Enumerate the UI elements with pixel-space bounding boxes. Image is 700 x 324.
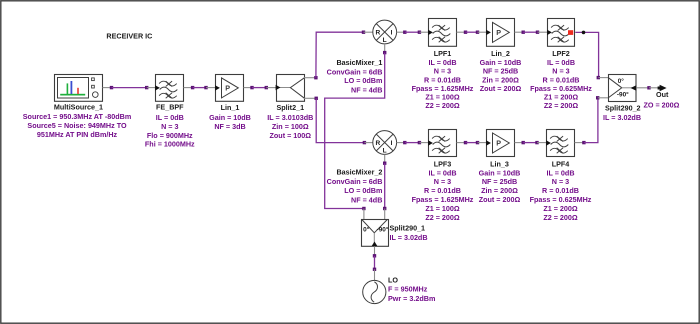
svg-text:0°: 0° <box>618 77 625 85</box>
svg-text:Zin = 100Ω: Zin = 100Ω <box>272 122 309 131</box>
svg-text:L: L <box>383 37 387 44</box>
svg-text:LPF3: LPF3 <box>434 159 452 168</box>
mixer BasicMixer_2 <box>327 131 397 205</box>
port Out <box>644 85 680 110</box>
svg-text:NF = 25dB: NF = 25dB <box>482 177 517 186</box>
combiner Split290_2 <box>603 75 641 123</box>
amplifier Lin_1 <box>209 75 251 132</box>
svg-text:P: P <box>496 139 501 148</box>
svg-text:R: R <box>376 29 381 36</box>
wire Lin_1 to Split2_1 <box>244 86 277 89</box>
svg-text:Gain = 10dB: Gain = 10dB <box>480 58 522 67</box>
svg-text:ConvGain = 6dB: ConvGain = 6dB <box>327 177 383 186</box>
low-pass filter LPF4 <box>530 130 592 222</box>
wire Split2_1 top output to BasicMixer_1 <box>304 31 373 80</box>
svg-text:P: P <box>496 28 501 37</box>
svg-text:F = 950MHz: F = 950MHz <box>388 285 428 294</box>
wire LPF2 to Split290_2 top input <box>575 31 608 80</box>
amplifier Lin_3 <box>479 130 521 205</box>
wire Lin_2 to LPF2 <box>515 31 548 34</box>
svg-text:Gain = 10dB: Gain = 10dB <box>479 168 521 177</box>
splitter Split2_1 <box>267 75 313 141</box>
svg-text:Lin_1: Lin_1 <box>221 103 240 112</box>
wire Lin_3 to LPF4 <box>515 141 547 144</box>
mixer BasicMixer_1 <box>327 20 397 94</box>
svg-text:Out: Out <box>656 90 669 99</box>
svg-text:Fpass = 1.625MHz: Fpass = 1.625MHz <box>412 195 474 204</box>
svg-text:R = 0.01dB: R = 0.01dB <box>542 186 579 195</box>
svg-text:ZO = 200Ω: ZO = 200Ω <box>644 101 680 110</box>
amplifier Lin_2 <box>480 19 522 94</box>
low-pass filter LPF1 <box>412 19 474 111</box>
svg-text:Lin_3: Lin_3 <box>490 159 509 168</box>
svg-text:-90°: -90° <box>377 226 389 234</box>
svg-text:IL = 0dB: IL = 0dB <box>428 168 456 177</box>
svg-text:FE_BPF: FE_BPF <box>156 103 184 112</box>
wire BasicMixer_1 to LPF1 <box>397 31 429 34</box>
red marker node on LPF2 output <box>568 30 573 35</box>
svg-text:IL = 0dB: IL = 0dB <box>546 168 574 177</box>
svg-text:IL = 3.0103dB: IL = 3.0103dB <box>267 113 313 122</box>
svg-text:Gain = 10dB: Gain = 10dB <box>209 113 251 122</box>
svg-text:Z2 = 200Ω: Z2 = 200Ω <box>544 101 579 110</box>
svg-text:Z2 = 200Ω: Z2 = 200Ω <box>425 213 460 222</box>
svg-text:Z2 = 200Ω: Z2 = 200Ω <box>543 213 578 222</box>
svg-text:R: R <box>376 140 381 147</box>
svg-text:I: I <box>391 140 393 147</box>
svg-text:Source5 = Noise: 949MHz TO: Source5 = Noise: 949MHz TO <box>27 121 127 130</box>
wire BasicMixer_2 to LPF3 <box>397 141 429 144</box>
svg-text:Source1 = 950.3MHz AT -80dBm: Source1 = 950.3MHz AT -80dBm <box>23 112 131 121</box>
svg-text:Split290_1: Split290_1 <box>390 224 426 233</box>
svg-text:NF = 4dB: NF = 4dB <box>351 195 382 204</box>
low-pass filter LPF3 <box>412 130 474 222</box>
wire Split2_1 bottom output to BasicMixer_2 <box>304 97 373 145</box>
wire Split290_1 90-deg output to BasicMixer_2 LO port <box>383 154 386 219</box>
svg-text:N = 3: N = 3 <box>161 122 178 131</box>
low-pass filter LPF2 <box>530 19 592 111</box>
svg-text:LO = 0dBm: LO = 0dBm <box>344 76 382 85</box>
wire Split290_1 0-deg output to BasicMixer_1 LO port <box>325 44 387 219</box>
svg-text:IL = 3.02dB: IL = 3.02dB <box>603 113 641 122</box>
svg-text:I: I <box>391 29 393 36</box>
svg-text:Z1 = 200Ω: Z1 = 200Ω <box>543 204 578 213</box>
svg-text:IL = 0dB: IL = 0dB <box>156 113 184 122</box>
svg-text:Split290_2: Split290_2 <box>605 104 641 113</box>
svg-text:IL = 0dB: IL = 0dB <box>428 58 456 67</box>
wire MultiSource_1 to FE_BPF <box>103 86 157 89</box>
svg-text:BasicMixer_1: BasicMixer_1 <box>336 58 382 67</box>
oscillator LO <box>363 275 436 303</box>
wire LPF4 to Split290_2 bottom input <box>575 96 609 144</box>
svg-text:R = 0.01dB: R = 0.01dB <box>543 75 580 84</box>
svg-text:951MHz AT PIN dBm/Hz: 951MHz AT PIN dBm/Hz <box>37 130 118 139</box>
svg-text:R = 0.01dB: R = 0.01dB <box>424 75 461 84</box>
svg-text:IL = 0dB: IL = 0dB <box>547 58 575 67</box>
source MultiSource_1 <box>23 75 131 140</box>
svg-text:R = 0.01dB: R = 0.01dB <box>424 186 461 195</box>
wire LO to Split290_1 input <box>373 246 376 280</box>
svg-text:Zout = 200Ω: Zout = 200Ω <box>480 84 522 93</box>
filter FE_BPF <box>145 75 195 149</box>
svg-text:NF = 3dB: NF = 3dB <box>214 122 245 131</box>
svg-text:RECEIVER IC: RECEIVER IC <box>106 32 152 41</box>
svg-text:Pwr = 3.2dBm: Pwr = 3.2dBm <box>388 294 435 303</box>
svg-text:Z1 = 100Ω: Z1 = 100Ω <box>425 204 460 213</box>
svg-text:Zin = 200Ω: Zin = 200Ω <box>481 186 518 195</box>
svg-text:Flo = 900MHz: Flo = 900MHz <box>147 131 193 140</box>
svg-text:Zout = 200Ω: Zout = 200Ω <box>479 195 521 204</box>
svg-text:P: P <box>225 84 230 93</box>
svg-text:Z2 = 200Ω: Z2 = 200Ω <box>425 101 460 110</box>
svg-text:MultiSource_1: MultiSource_1 <box>54 103 103 112</box>
wire FE_BPF to Lin_1 <box>184 86 216 89</box>
svg-text:LPF2: LPF2 <box>552 49 570 58</box>
svg-text:Fhi = 1000MHz: Fhi = 1000MHz <box>145 140 195 149</box>
svg-text:N = 3: N = 3 <box>434 177 451 186</box>
svg-text:Fpass = 0.625MHz: Fpass = 0.625MHz <box>530 195 592 204</box>
svg-text:Zout = 100Ω: Zout = 100Ω <box>270 131 312 140</box>
svg-text:LO: LO <box>388 275 398 284</box>
svg-text:-90°: -90° <box>617 91 629 99</box>
wire LPF1 to Lin_2 <box>457 31 487 34</box>
svg-text:0°: 0° <box>363 226 370 234</box>
splitter Split290_1 <box>362 220 428 247</box>
svg-text:IL = 3.02dB: IL = 3.02dB <box>390 233 428 242</box>
svg-text:Zin = 200Ω: Zin = 200Ω <box>482 75 519 84</box>
svg-text:LPF4: LPF4 <box>552 159 570 168</box>
wire Split290_2 to Out port <box>636 86 660 89</box>
svg-text:LO = 0dBm: LO = 0dBm <box>344 186 382 195</box>
svg-text:Split2_1: Split2_1 <box>277 103 305 112</box>
svg-text:BasicMixer_2: BasicMixer_2 <box>336 168 382 177</box>
wire LPF3 to Lin_3 <box>457 141 487 144</box>
svg-text:N = 3: N = 3 <box>552 177 569 186</box>
svg-text:L: L <box>383 148 387 155</box>
svg-text:NF = 4dB: NF = 4dB <box>351 85 382 94</box>
svg-text:ConvGain = 6dB: ConvGain = 6dB <box>327 67 383 76</box>
svg-text:Lin_2: Lin_2 <box>491 49 510 58</box>
svg-text:LPF1: LPF1 <box>434 49 452 58</box>
